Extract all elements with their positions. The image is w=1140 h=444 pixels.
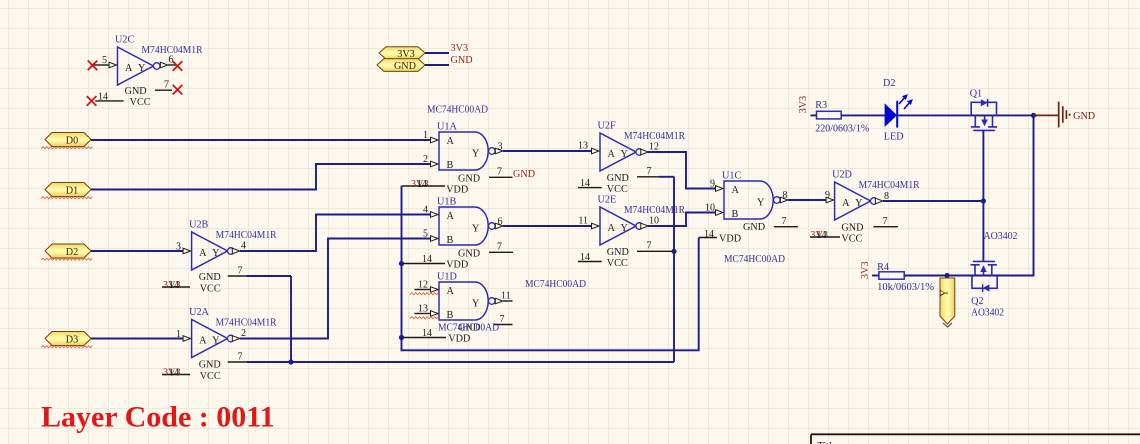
- svg-text:U2B: U2B: [189, 220, 208, 231]
- compile-error squiggle under D3: [41, 346, 92, 348]
- svg-text:MC74HC00AD: MC74HC00AD: [724, 254, 785, 265]
- svg-text:MC74HC00AD: MC74HC00AD: [427, 105, 488, 116]
- gate U2C body: [118, 47, 154, 85]
- svg-text:9: 9: [825, 190, 830, 201]
- svg-text:7: 7: [497, 167, 502, 178]
- svg-text:5: 5: [423, 229, 428, 240]
- no-ERC cross on U2C pin 6: [173, 61, 183, 71]
- svg-text:7: 7: [883, 216, 888, 227]
- svg-text:8: 8: [783, 190, 788, 201]
- svg-text:6: 6: [498, 217, 503, 228]
- svg-text:VDD: VDD: [446, 259, 468, 270]
- U2B input pin 3: [183, 248, 191, 254]
- resistor R3: [817, 111, 842, 119]
- wire Q1 gate down to U2D output and Q2 gate: [982, 130, 984, 262]
- svg-text:9: 9: [710, 179, 715, 190]
- U1D GND pin 7 stub: [494, 324, 513, 326]
- svg-text:6: 6: [169, 55, 174, 66]
- svg-text:D2: D2: [66, 247, 78, 258]
- svg-text:Layer Code : 0011: Layer Code : 0011: [41, 401, 275, 434]
- svg-text:VDD: VDD: [446, 184, 468, 195]
- U1B pin 4: [431, 212, 439, 218]
- svg-text:14: 14: [422, 328, 432, 339]
- svg-text:U1B: U1B: [437, 197, 456, 208]
- svg-text:5: 5: [102, 55, 107, 66]
- svg-text:MC74HC00AD: MC74HC00AD: [525, 279, 586, 290]
- svg-text:Y: Y: [212, 335, 220, 346]
- port D2: [45, 244, 91, 258]
- wire from 3V3 port: [425, 52, 449, 54]
- resistor R4: [879, 272, 904, 279]
- svg-text:14: 14: [580, 252, 590, 263]
- svg-text:Y: Y: [757, 198, 765, 209]
- svg-text:3: 3: [498, 142, 503, 153]
- svg-text:10: 10: [649, 216, 659, 227]
- U1D output pin 11 stub: [495, 298, 503, 304]
- svg-text:M74HC04M1R: M74HC04M1R: [859, 180, 920, 191]
- svg-text:GND: GND: [451, 55, 473, 66]
- svg-text:U2D: U2D: [832, 170, 852, 181]
- svg-text:U2E: U2E: [598, 195, 617, 206]
- svg-text:7: 7: [164, 80, 169, 91]
- svg-text:VCC: VCC: [200, 284, 221, 295]
- svg-text:AO3402: AO3402: [971, 308, 1004, 319]
- svg-text:14: 14: [422, 254, 432, 265]
- svg-text:VCC: VCC: [200, 371, 221, 382]
- wire D0 to U1A pin 1: [91, 139, 430, 141]
- svg-text:D2: D2: [883, 78, 895, 89]
- svg-text:3V3: 3V3: [798, 96, 809, 114]
- svg-text:Y: Y: [472, 299, 480, 310]
- svg-text:12: 12: [649, 142, 659, 153]
- wire R3 to D2: [841, 114, 885, 116]
- svg-text:7: 7: [497, 242, 502, 253]
- svg-text:Y: Y: [621, 149, 629, 160]
- 3V3 power rail wire: [402, 186, 699, 350]
- svg-text:2: 2: [423, 154, 428, 165]
- squiggle under U1D pin 12: [410, 293, 439, 295]
- power port GND: [377, 59, 425, 72]
- svg-text:Y: Y: [855, 198, 863, 209]
- U2D output pin 8 wire to Q1/Q2 gates: [875, 198, 883, 204]
- svg-text:B: B: [447, 310, 454, 321]
- gate U1D body: [439, 282, 488, 320]
- svg-text:14: 14: [169, 368, 179, 379]
- U1A pin 1: [431, 137, 439, 143]
- svg-text:U1A: U1A: [437, 122, 457, 133]
- svg-text:Q1: Q1: [970, 89, 982, 100]
- svg-text:3V3: 3V3: [860, 261, 871, 279]
- svg-text:M74HC04M1R: M74HC04M1R: [624, 131, 685, 142]
- wire D2 to U2B input: [91, 250, 184, 252]
- wire from GND port: [425, 64, 449, 66]
- svg-text:GND: GND: [743, 222, 765, 233]
- svg-text:D1: D1: [66, 185, 78, 196]
- squiggle under U1D pin 13: [410, 317, 439, 319]
- svg-text:2: 2: [241, 328, 246, 339]
- svg-text:A: A: [125, 63, 133, 74]
- svg-text:R4: R4: [877, 262, 889, 273]
- wire D1 to U1A pin 2: [91, 164, 430, 190]
- svg-text:1: 1: [423, 130, 428, 141]
- svg-text:MC74HC00AD: MC74HC00AD: [438, 323, 499, 334]
- power ground symbol GND: [1034, 102, 1070, 128]
- svg-text:A: A: [842, 198, 850, 209]
- svg-text:4: 4: [423, 205, 428, 216]
- svg-text:VCC: VCC: [607, 184, 628, 195]
- U2B output pin 4 wire to U1B pin A: [232, 248, 240, 254]
- U2C pin 5 wire: [93, 64, 109, 66]
- svg-text:7: 7: [238, 266, 243, 277]
- svg-text:8: 8: [884, 191, 889, 202]
- svg-text:14: 14: [704, 229, 714, 240]
- wire 3V3 to R4: [872, 275, 880, 277]
- svg-text:GND: GND: [394, 61, 416, 72]
- svg-text:7: 7: [500, 314, 505, 325]
- svg-text:14: 14: [580, 178, 590, 189]
- junction at Q1 drain and GND symbol: [1031, 113, 1036, 118]
- dangling wire tick under port Y: [943, 323, 952, 327]
- svg-text:GND: GND: [841, 223, 863, 234]
- U1A output pin 3 wire to U2F input pin 13: [495, 148, 503, 154]
- port Y vertical: [940, 278, 955, 324]
- junction 3V3 rail at U1B pin 14: [399, 261, 404, 266]
- U1C output pin 8 wire to U2D input pin 9: [780, 197, 788, 203]
- svg-text:B: B: [447, 235, 454, 246]
- power port 3V3: [379, 47, 425, 60]
- svg-text:GND: GND: [607, 173, 629, 184]
- svg-text:14: 14: [98, 92, 108, 103]
- svg-text:Y: Y: [472, 224, 480, 235]
- svg-text:7: 7: [647, 166, 652, 177]
- compile-error squiggle under D1: [41, 197, 92, 199]
- transistor Q1: [971, 102, 997, 130]
- svg-text:A: A: [199, 335, 207, 346]
- svg-text:3: 3: [176, 242, 181, 253]
- gate U1B body: [439, 207, 488, 245]
- wire D2 to Q1: [897, 114, 1033, 116]
- svg-text:AO3402: AO3402: [984, 231, 1018, 242]
- port D3: [45, 332, 91, 346]
- svg-text:12: 12: [418, 280, 428, 291]
- U2F output pin 12 wire to U1C pin 9: [641, 149, 649, 155]
- U2C pin 6 wire: [160, 62, 168, 68]
- U1B output pin 6 wire to U2E input pin 11: [495, 223, 503, 229]
- svg-text:GND: GND: [199, 272, 221, 283]
- svg-text:11: 11: [501, 291, 511, 302]
- svg-text:VCC: VCC: [607, 258, 628, 269]
- junction R4 / port Y / Q2: [945, 273, 950, 278]
- svg-text:U2F: U2F: [598, 121, 616, 132]
- svg-text:Y: Y: [212, 248, 220, 259]
- svg-text:14: 14: [417, 179, 427, 190]
- svg-text:10: 10: [705, 203, 715, 214]
- gate U2B body: [192, 232, 228, 270]
- svg-text:A: A: [447, 286, 455, 297]
- svg-text:Q2: Q2: [971, 296, 983, 307]
- svg-text:7: 7: [782, 216, 787, 227]
- svg-text:GND: GND: [458, 249, 480, 260]
- U1A pin 2: [431, 161, 439, 167]
- svg-text:Y: Y: [621, 223, 629, 234]
- svg-text:7: 7: [647, 241, 652, 252]
- svg-text:GND: GND: [607, 247, 629, 258]
- port D0: [45, 133, 91, 147]
- svg-text:B: B: [447, 160, 454, 171]
- U1D pin 13 stub: [415, 313, 431, 315]
- svg-text:Y: Y: [138, 63, 146, 74]
- svg-text:A: A: [447, 211, 455, 222]
- gate U1A body: [439, 132, 488, 170]
- svg-text:A: A: [608, 223, 616, 234]
- svg-text:M74HC04M1R: M74HC04M1R: [216, 230, 277, 241]
- svg-text:U1C: U1C: [722, 171, 741, 182]
- svg-text:U2C: U2C: [115, 35, 134, 46]
- svg-text:LED: LED: [884, 131, 904, 142]
- svg-text:GND: GND: [458, 174, 480, 185]
- wire 3V3 to R3: [811, 114, 818, 116]
- port D1: [45, 183, 91, 197]
- svg-text:3V3: 3V3: [451, 43, 469, 54]
- wire D3 to U2A input: [91, 338, 184, 340]
- svg-text:A: A: [199, 248, 207, 259]
- svg-text:Y: Y: [940, 289, 951, 297]
- svg-text:A: A: [732, 185, 740, 196]
- U1B pin 5: [431, 236, 439, 242]
- U2E output pin 10 wire to U1C pin 10: [641, 223, 649, 229]
- gate U2A body: [192, 320, 228, 358]
- svg-text:VCC: VCC: [841, 234, 862, 245]
- svg-text:4: 4: [241, 241, 246, 252]
- wire R4 to Q2 source rail: [904, 275, 947, 277]
- svg-text:M74HC04M1R: M74HC04M1R: [216, 318, 277, 329]
- wire U2B GND down to U2A GND: [290, 276, 292, 362]
- svg-text:R3: R3: [815, 100, 827, 111]
- svg-text:D0: D0: [66, 135, 78, 146]
- svg-text:13: 13: [578, 141, 588, 152]
- gate U1C body: [724, 181, 773, 219]
- svg-text:GND: GND: [125, 86, 147, 97]
- gate U2E body: [600, 207, 636, 245]
- svg-text:U1D: U1D: [437, 272, 457, 283]
- svg-text:B: B: [732, 209, 739, 220]
- title block frame: [811, 434, 1140, 444]
- svg-text:GND: GND: [513, 169, 535, 180]
- compile-error squiggle under D0: [41, 147, 92, 149]
- svg-text:13: 13: [418, 304, 428, 315]
- svg-text:14: 14: [169, 280, 179, 291]
- svg-text:M74HC04M1R: M74HC04M1R: [624, 205, 685, 216]
- gate U2F body: [600, 133, 636, 171]
- svg-text:A: A: [608, 149, 616, 160]
- transistor Q2: [971, 261, 998, 288]
- U2A input pin 1: [183, 336, 191, 342]
- junction U2B/U2A GND: [288, 359, 293, 364]
- gate U2D body: [835, 182, 871, 220]
- svg-text:U2A: U2A: [189, 307, 209, 318]
- svg-text:14: 14: [816, 230, 826, 241]
- junction 3V3 rail at U1D pin 14: [399, 335, 404, 340]
- svg-text:GND: GND: [199, 360, 221, 371]
- svg-text:Y: Y: [472, 149, 480, 160]
- svg-text:7: 7: [238, 352, 243, 363]
- wire Q1 junction down to Q2 drain: [947, 115, 1033, 275]
- svg-text:A: A: [447, 136, 455, 147]
- svg-text:VCC: VCC: [130, 97, 151, 108]
- LED D2: [885, 103, 897, 127]
- svg-text:1: 1: [176, 329, 181, 340]
- no-ERC cross on U2C pin 5: [88, 61, 98, 71]
- svg-text:GND: GND: [1073, 111, 1095, 122]
- svg-text:11: 11: [578, 216, 588, 227]
- U1D pin 12 stub: [415, 289, 431, 291]
- U2A output pin 2 wire to U1B pin B: [232, 336, 240, 342]
- svg-text:10k/0603/1%: 10k/0603/1%: [877, 282, 935, 293]
- compile-error squiggle under D2: [41, 258, 92, 260]
- svg-text:D3: D3: [66, 334, 78, 345]
- svg-text:220/0603/1%: 220/0603/1%: [815, 124, 869, 135]
- junction U2E GND with GND bus: [671, 249, 676, 254]
- junction U2D output / Q1 / Q2 gates: [981, 198, 986, 203]
- svg-text:VDD: VDD: [719, 234, 741, 245]
- svg-text:VDD: VDD: [448, 334, 470, 345]
